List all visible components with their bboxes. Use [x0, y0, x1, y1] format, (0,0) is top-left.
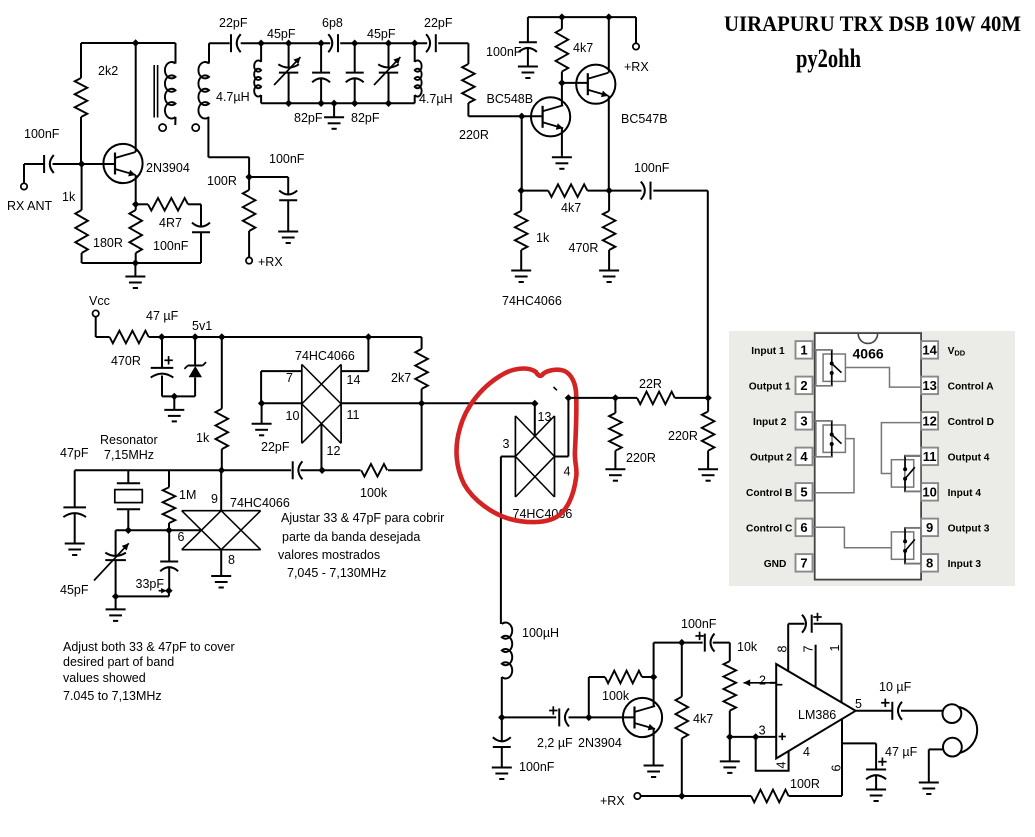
- wire swD to pin10: [905, 490, 921, 492]
- wire pin6: [841, 719, 843, 796]
- resistor R-180R emitter: [135, 204, 137, 210]
- svg-text:6p8: 6p8: [322, 16, 343, 30]
- svg-text:valores mostrados: valores mostrados: [278, 548, 380, 562]
- switch unit A: [816, 350, 832, 386]
- red marker circle around mixer switch: [457, 369, 577, 523]
- node Q3 collector junction: [558, 79, 565, 86]
- capacitor C-22pF right: [426, 34, 430, 52]
- wire Q3 emitter: [561, 128, 563, 156]
- pin box right 8: [921, 554, 938, 572]
- svg-text:6: 6: [178, 530, 185, 544]
- node af coupling: [678, 639, 685, 646]
- wire filter bottom rail: [261, 102, 415, 104]
- svg-text:GND: GND: [764, 559, 787, 570]
- svg-text:2: 2: [759, 674, 766, 688]
- svg-text:4k7: 4k7: [573, 41, 593, 55]
- node 45pF-2 top: [385, 40, 392, 47]
- svg-text:4R7: 4R7: [159, 216, 182, 230]
- svg-text:100nF: 100nF: [681, 617, 717, 631]
- svg-text:Input 3: Input 3: [948, 559, 982, 570]
- svg-text:8: 8: [776, 646, 790, 653]
- op-amp U2 LM386: [776, 664, 855, 759]
- ground 1k: [520, 269, 522, 271]
- pin box right 10: [921, 483, 938, 501]
- node bottom 1: [285, 100, 292, 107]
- transformer T1 secondary winding: [208, 43, 210, 63]
- svg-text:4: 4: [803, 745, 810, 759]
- resistor R-2k2: [80, 43, 82, 78]
- svg-text:1k: 1k: [196, 431, 210, 445]
- node D: [411, 40, 418, 47]
- pin box left 6: [796, 519, 813, 537]
- node 33pF bottom: [165, 587, 172, 594]
- potentiometer 10k: [729, 643, 731, 662]
- svg-text:+RX: +RX: [600, 794, 625, 808]
- capacitor C-33pF: [168, 530, 170, 561]
- resistor R-100R mute: [248, 177, 250, 190]
- 4066 pinout diagram background: [729, 331, 1015, 586]
- wire cap to pin1: [814, 623, 842, 625]
- pin box left 5: [796, 483, 813, 501]
- svg-text:220R: 220R: [626, 451, 656, 465]
- capacitor C-47pF: [74, 470, 76, 507]
- node pin13 top: [531, 400, 538, 407]
- node 1k-pin9: [218, 467, 225, 474]
- node reg ground: [171, 393, 178, 400]
- node 45pF-1 top: [285, 40, 292, 47]
- terminal +RX supply: [633, 43, 639, 49]
- wire emitter bottom rail: [82, 262, 201, 264]
- wire Vcc lead: [95, 317, 97, 337]
- svg-text:6: 6: [830, 765, 844, 772]
- svg-text:parte da banda desejada: parte da banda desejada: [282, 530, 420, 544]
- headphone band: [959, 707, 977, 753]
- svg-text:22R: 22R: [639, 377, 662, 391]
- node B: [317, 40, 324, 47]
- node +RX top: [605, 13, 612, 20]
- wire swB to pin5: [813, 439, 855, 493]
- label plus: [779, 736, 786, 738]
- node A: [257, 40, 264, 47]
- transformer T1 secondary phase dot: [192, 124, 199, 131]
- resistor R-220R-2: [707, 398, 709, 412]
- svg-text:11: 11: [347, 408, 360, 422]
- svg-text:12: 12: [327, 444, 341, 458]
- node trimmer gnd: [112, 593, 119, 600]
- node pin14 riser top: [365, 333, 372, 340]
- terminal RX ANT: [21, 183, 27, 189]
- svg-text:100nF: 100nF: [153, 239, 189, 253]
- node 4k7 bottom: [678, 792, 685, 799]
- svg-text:11: 11: [923, 449, 937, 464]
- wire pin2 to swA: [813, 385, 832, 387]
- svg-text:5: 5: [855, 697, 862, 711]
- wire phones return: [929, 748, 943, 750]
- ground regulator: [173, 396, 175, 410]
- terminal +RX audio: [634, 793, 640, 799]
- svg-text:470R: 470R: [569, 241, 599, 255]
- svg-text:100nF: 100nF: [519, 760, 555, 774]
- transformer T1 primary winding: [175, 43, 177, 64]
- svg-text:100nF: 100nF: [24, 127, 60, 141]
- ground filter: [333, 103, 335, 117]
- svg-text:74HC4066: 74HC4066: [230, 496, 290, 510]
- wire Q4 emitter: [653, 729, 655, 764]
- svg-text:5v1: 5v1: [192, 319, 212, 333]
- wire pin4 loop: [756, 737, 789, 771]
- node 47uF top: [158, 333, 165, 340]
- pin box left 1: [796, 341, 813, 359]
- svg-text:4: 4: [800, 449, 808, 464]
- svg-text:10k: 10k: [737, 640, 758, 654]
- resistor R-2k7: [421, 337, 423, 349]
- inductor L-100uH: [501, 623, 503, 625]
- svg-text:2N3904: 2N3904: [578, 736, 622, 750]
- svg-text:45pF: 45pF: [267, 27, 296, 41]
- wire pin3: [501, 456, 516, 458]
- wire audio coupling: [502, 716, 556, 718]
- svg-text:4066: 4066: [853, 346, 884, 362]
- wire to Q2 base: [468, 115, 542, 117]
- capacitor C-100nF mute: [287, 177, 289, 195]
- svg-text:2N3904: 2N3904: [146, 161, 190, 175]
- resistor R-100R fb: [751, 790, 789, 803]
- svg-text:22pF: 22pF: [219, 16, 248, 30]
- resistor R-100k af: [605, 671, 642, 684]
- wire 100k to collector: [642, 676, 654, 678]
- wire pin13 stem: [534, 404, 536, 437]
- wire 47uF tap: [842, 742, 876, 744]
- wire RX ANT lead: [23, 164, 25, 183]
- switch unit D: [905, 456, 921, 492]
- resistor R-1M: [168, 470, 170, 487]
- svg-text:6: 6: [800, 520, 807, 535]
- svg-text:82pF: 82pF: [351, 111, 380, 125]
- wire base feedback vertical: [521, 116, 523, 190]
- svg-text:22pF: 22pF: [261, 440, 290, 454]
- wire pin4: [555, 456, 569, 458]
- capacitor C-22pF osc: [292, 461, 294, 479]
- capacitor C-100nF emitter bypass: [192, 223, 210, 227]
- pin box right 11: [921, 448, 938, 466]
- resistor R-220R-1: [614, 398, 616, 413]
- wire base: [53, 163, 116, 165]
- svg-text:100k: 100k: [602, 689, 630, 703]
- svg-text:74HC4066: 74HC4066: [295, 349, 355, 363]
- resistor R-4k7 feedback: [521, 190, 548, 192]
- transformer T1 primary phase dot: [159, 124, 166, 131]
- wire mixer feed vertical: [707, 191, 709, 398]
- stray mark: [554, 387, 558, 390]
- svg-text:100k: 100k: [360, 486, 388, 500]
- svg-text:82pF: 82pF: [294, 111, 323, 125]
- wire pin1 to swA: [813, 349, 832, 351]
- wire Q3 collector: [561, 83, 563, 105]
- svg-text:1: 1: [800, 343, 807, 358]
- svg-text:UIRAPURU TRX DSB 10W 40M: UIRAPURU TRX DSB 10W 40M: [724, 11, 1021, 36]
- node pin3-4: [752, 733, 759, 740]
- svg-text:8: 8: [228, 553, 235, 567]
- ground 220R-2: [707, 468, 709, 469]
- wire pin12 stem: [320, 424, 322, 471]
- svg-text:10: 10: [286, 409, 300, 423]
- wire 5v rail: [162, 336, 422, 338]
- node crystal bottom: [125, 527, 132, 534]
- svg-text:py2ohh: py2ohh: [796, 44, 861, 73]
- wire 33pF to gnd: [168, 591, 170, 597]
- svg-text:33pF: 33pF: [136, 577, 165, 591]
- svg-text:220R: 220R: [459, 128, 489, 142]
- resistor R-220R input: [462, 64, 475, 103]
- wire Q2 base: [562, 82, 588, 84]
- pin box left 7: [796, 554, 813, 572]
- headphone ear 1: [943, 704, 962, 723]
- wire to phones: [901, 710, 943, 712]
- node C: [351, 40, 358, 47]
- svg-text:Resonator: Resonator: [100, 433, 158, 447]
- wire Q1 emitter: [135, 175, 137, 204]
- ground 220R-1: [614, 468, 616, 469]
- svg-text:8: 8: [926, 556, 933, 571]
- ground 470R: [608, 269, 610, 271]
- zener D-5v1: [194, 337, 196, 366]
- svg-text:9: 9: [211, 492, 218, 506]
- ground phones: [928, 781, 930, 783]
- svg-text:220R: 220R: [668, 429, 698, 443]
- terminal +RX mute: [246, 257, 252, 263]
- svg-text:100nF: 100nF: [486, 45, 522, 59]
- resistor R-1k osc: [221, 337, 223, 409]
- switch unit B: [816, 421, 832, 457]
- resistor R-4R7: [136, 203, 148, 205]
- wire supply rail upper: [528, 16, 636, 18]
- node collector top: [650, 673, 657, 680]
- svg-text:Control B: Control B: [746, 488, 792, 499]
- wire Q2 emitter: [608, 96, 610, 191]
- svg-text:Output 2: Output 2: [750, 452, 792, 463]
- wire Q1 collector: [135, 43, 137, 152]
- node pin12 bottom: [318, 467, 325, 474]
- pin box right 14: [921, 341, 938, 359]
- node 220R-2 top: [704, 394, 711, 401]
- wire filter top rail: [209, 42, 230, 44]
- transformer T1 core: [153, 65, 155, 118]
- pin box left 3: [796, 412, 813, 430]
- wire pin12 to swD: [881, 423, 921, 474]
- svg-text:100µH: 100µH: [522, 626, 559, 640]
- wire pin6 to swC: [813, 527, 892, 548]
- capacitor C-100nF audio gnd: [501, 717, 503, 741]
- node feedback right: [605, 187, 612, 194]
- ground 47uF: [875, 788, 877, 790]
- node 1k top: [218, 333, 225, 340]
- trimmer arrow 33pF: [159, 590, 167, 592]
- capacitor C-6p8: [328, 34, 332, 52]
- wire node to cap: [249, 176, 288, 178]
- svg-text:Input 1: Input 1: [751, 346, 785, 357]
- svg-text:2: 2: [800, 378, 807, 393]
- resistor R-4k7 collector: [561, 17, 563, 29]
- pin box left 4: [796, 448, 813, 466]
- svg-text:100R: 100R: [207, 174, 237, 188]
- node pin4 top: [565, 394, 572, 401]
- ground Q3 emitter: [561, 156, 563, 158]
- svg-text:Adjust both 33 & 47pF to cover: Adjust both 33 & 47pF to cover: [63, 640, 235, 654]
- wire pin11: [341, 402, 535, 404]
- capacitor C-100nF af: [704, 634, 706, 652]
- wire osc rail: [75, 469, 291, 471]
- ground pot: [729, 737, 731, 762]
- svg-text:12: 12: [922, 414, 936, 429]
- svg-text:1M: 1M: [179, 488, 196, 502]
- ground sw2: [220, 574, 222, 576]
- svg-text:13: 13: [538, 410, 552, 424]
- svg-text:9: 9: [926, 520, 933, 535]
- svg-text:5: 5: [800, 485, 807, 500]
- svg-text:BC547B: BC547B: [621, 112, 668, 126]
- node pin7-10 gnd: [258, 400, 265, 407]
- svg-text:1k: 1k: [536, 231, 550, 245]
- svg-text:7,045 - 7,130MHz: 7,045 - 7,130MHz: [287, 566, 386, 580]
- svg-text:22pF: 22pF: [424, 16, 453, 30]
- transistor Q2 BC547B: [576, 65, 615, 104]
- node collector-top junction: [132, 39, 139, 46]
- svg-text:7,15MHz: 7,15MHz: [104, 448, 154, 462]
- svg-text:BC548B: BC548B: [487, 92, 534, 106]
- svg-text:RX ANT: RX ANT: [7, 199, 53, 213]
- wire pin9 stem: [220, 470, 222, 510]
- node Q2 base junction: [518, 113, 525, 120]
- wire +RX line: [641, 795, 752, 797]
- transistor Q3 BC548B: [531, 97, 570, 136]
- capacitor C-100nF coupling: [609, 190, 641, 192]
- svg-text:LM386: LM386: [798, 708, 836, 722]
- svg-text:180R: 180R: [93, 236, 123, 250]
- node 1M bottom: [165, 527, 172, 534]
- analog switch U1b 74HC4066: [182, 510, 261, 512]
- analog switch U1a 74HC4066: [301, 364, 303, 443]
- svg-text:13: 13: [922, 378, 936, 393]
- svg-text:14: 14: [347, 373, 361, 387]
- capacitor C-10uF output: [891, 702, 893, 720]
- svg-text:470R: 470R: [111, 354, 141, 368]
- svg-text:7.045 to 7,13MHz: 7.045 to 7,13MHz: [63, 689, 162, 703]
- resistor R-4k7 af: [681, 643, 683, 697]
- svg-text:4.7µH: 4.7µH: [216, 90, 250, 104]
- svg-text:1: 1: [828, 645, 842, 652]
- capacitor C-100nF supply: [527, 17, 529, 42]
- svg-text:47 µF: 47 µF: [885, 745, 918, 759]
- svg-text:Input 4: Input 4: [948, 488, 982, 499]
- wire pin3 lm386: [730, 736, 776, 738]
- svg-text:47pF: 47pF: [60, 446, 89, 460]
- svg-text:100R: 100R: [790, 777, 820, 791]
- svg-text:14: 14: [922, 343, 937, 358]
- IC body 4066: [815, 333, 921, 579]
- svg-text:4: 4: [564, 465, 571, 479]
- wire osc lower rail: [116, 529, 202, 531]
- ground 47pF: [74, 541, 76, 544]
- svg-text:4: 4: [775, 762, 789, 769]
- svg-text:100nF: 100nF: [634, 161, 670, 175]
- svg-text:4k7: 4k7: [693, 712, 713, 726]
- ground trimmers: [115, 596, 117, 609]
- node ground junction: [132, 259, 139, 266]
- wire pin7 stub: [815, 645, 817, 688]
- trimmer capacitor 45pF-1: [288, 43, 290, 67]
- wire Q2 collector: [608, 17, 610, 73]
- node pot bottom: [726, 733, 733, 740]
- wire top rail RX preamp: [81, 42, 176, 44]
- node 4k7 top: [558, 13, 565, 20]
- ground G1: [134, 263, 136, 277]
- pin box left 2: [796, 377, 813, 395]
- svg-text:100nF: 100nF: [269, 152, 305, 166]
- wire collector to node: [653, 643, 655, 677]
- svg-text:3: 3: [503, 437, 510, 451]
- svg-text:+RX: +RX: [258, 255, 283, 269]
- trimmer capacitor 45pF osc: [115, 530, 117, 556]
- resistor R-1k base: [81, 164, 83, 210]
- svg-text:Control A: Control A: [948, 381, 995, 392]
- svg-text:4k7: 4k7: [561, 201, 581, 215]
- svg-text:4.7µH: 4.7µH: [419, 92, 453, 106]
- node feedback left: [518, 187, 525, 194]
- wire Q4 base: [589, 716, 635, 718]
- svg-text:Output 1: Output 1: [749, 381, 791, 392]
- node bottom 4: [385, 100, 392, 107]
- capacitor C-82pF left: [320, 43, 322, 72]
- svg-text:VDD: VDD: [948, 346, 966, 358]
- svg-text:7: 7: [800, 556, 807, 571]
- svg-text:Control D: Control D: [948, 417, 994, 428]
- svg-text:2k2: 2k2: [98, 64, 118, 78]
- wire mixer rail: [568, 397, 637, 399]
- wire pin8: [787, 624, 789, 671]
- wire pin4 to swB: [813, 456, 832, 458]
- wire Q4 collector: [653, 677, 655, 706]
- svg-text:Vcc: Vcc: [89, 294, 110, 308]
- node bottom gnd: [330, 100, 337, 107]
- ground audio in: [501, 766, 503, 768]
- terminal Vcc: [93, 310, 99, 316]
- pin box right 9: [921, 519, 938, 537]
- svg-text:3: 3: [759, 724, 766, 738]
- switch unit C: [905, 528, 921, 564]
- node pin11-2k7: [418, 400, 425, 407]
- svg-text:values showed: values showed: [63, 671, 146, 685]
- svg-text:47 µF: 47 µF: [146, 309, 179, 323]
- transistor Q4 2N3904: [623, 698, 662, 737]
- resistor R-100k osc: [361, 464, 387, 477]
- pin box right 12: [921, 412, 938, 430]
- svg-text:74HC4066: 74HC4066: [502, 294, 562, 308]
- node 100R top: [245, 173, 252, 180]
- resistor R-470R: [608, 191, 610, 211]
- capacitor C-82pF right: [354, 43, 356, 72]
- wire filter out corner: [467, 43, 469, 64]
- svg-text:10 µF: 10 µF: [879, 680, 912, 694]
- analog switch U1c 74HC4066 mixer: [514, 416, 516, 497]
- svg-text:Input 2: Input 2: [753, 417, 787, 428]
- svg-text:10: 10: [922, 485, 936, 500]
- ground Q4: [653, 764, 655, 766]
- pin box right 13: [921, 377, 938, 395]
- node zener top: [191, 333, 198, 340]
- inductor L-4.7uH left: [260, 43, 262, 62]
- svg-text:7: 7: [286, 371, 293, 385]
- capacitor C-47uF output: [866, 769, 886, 771]
